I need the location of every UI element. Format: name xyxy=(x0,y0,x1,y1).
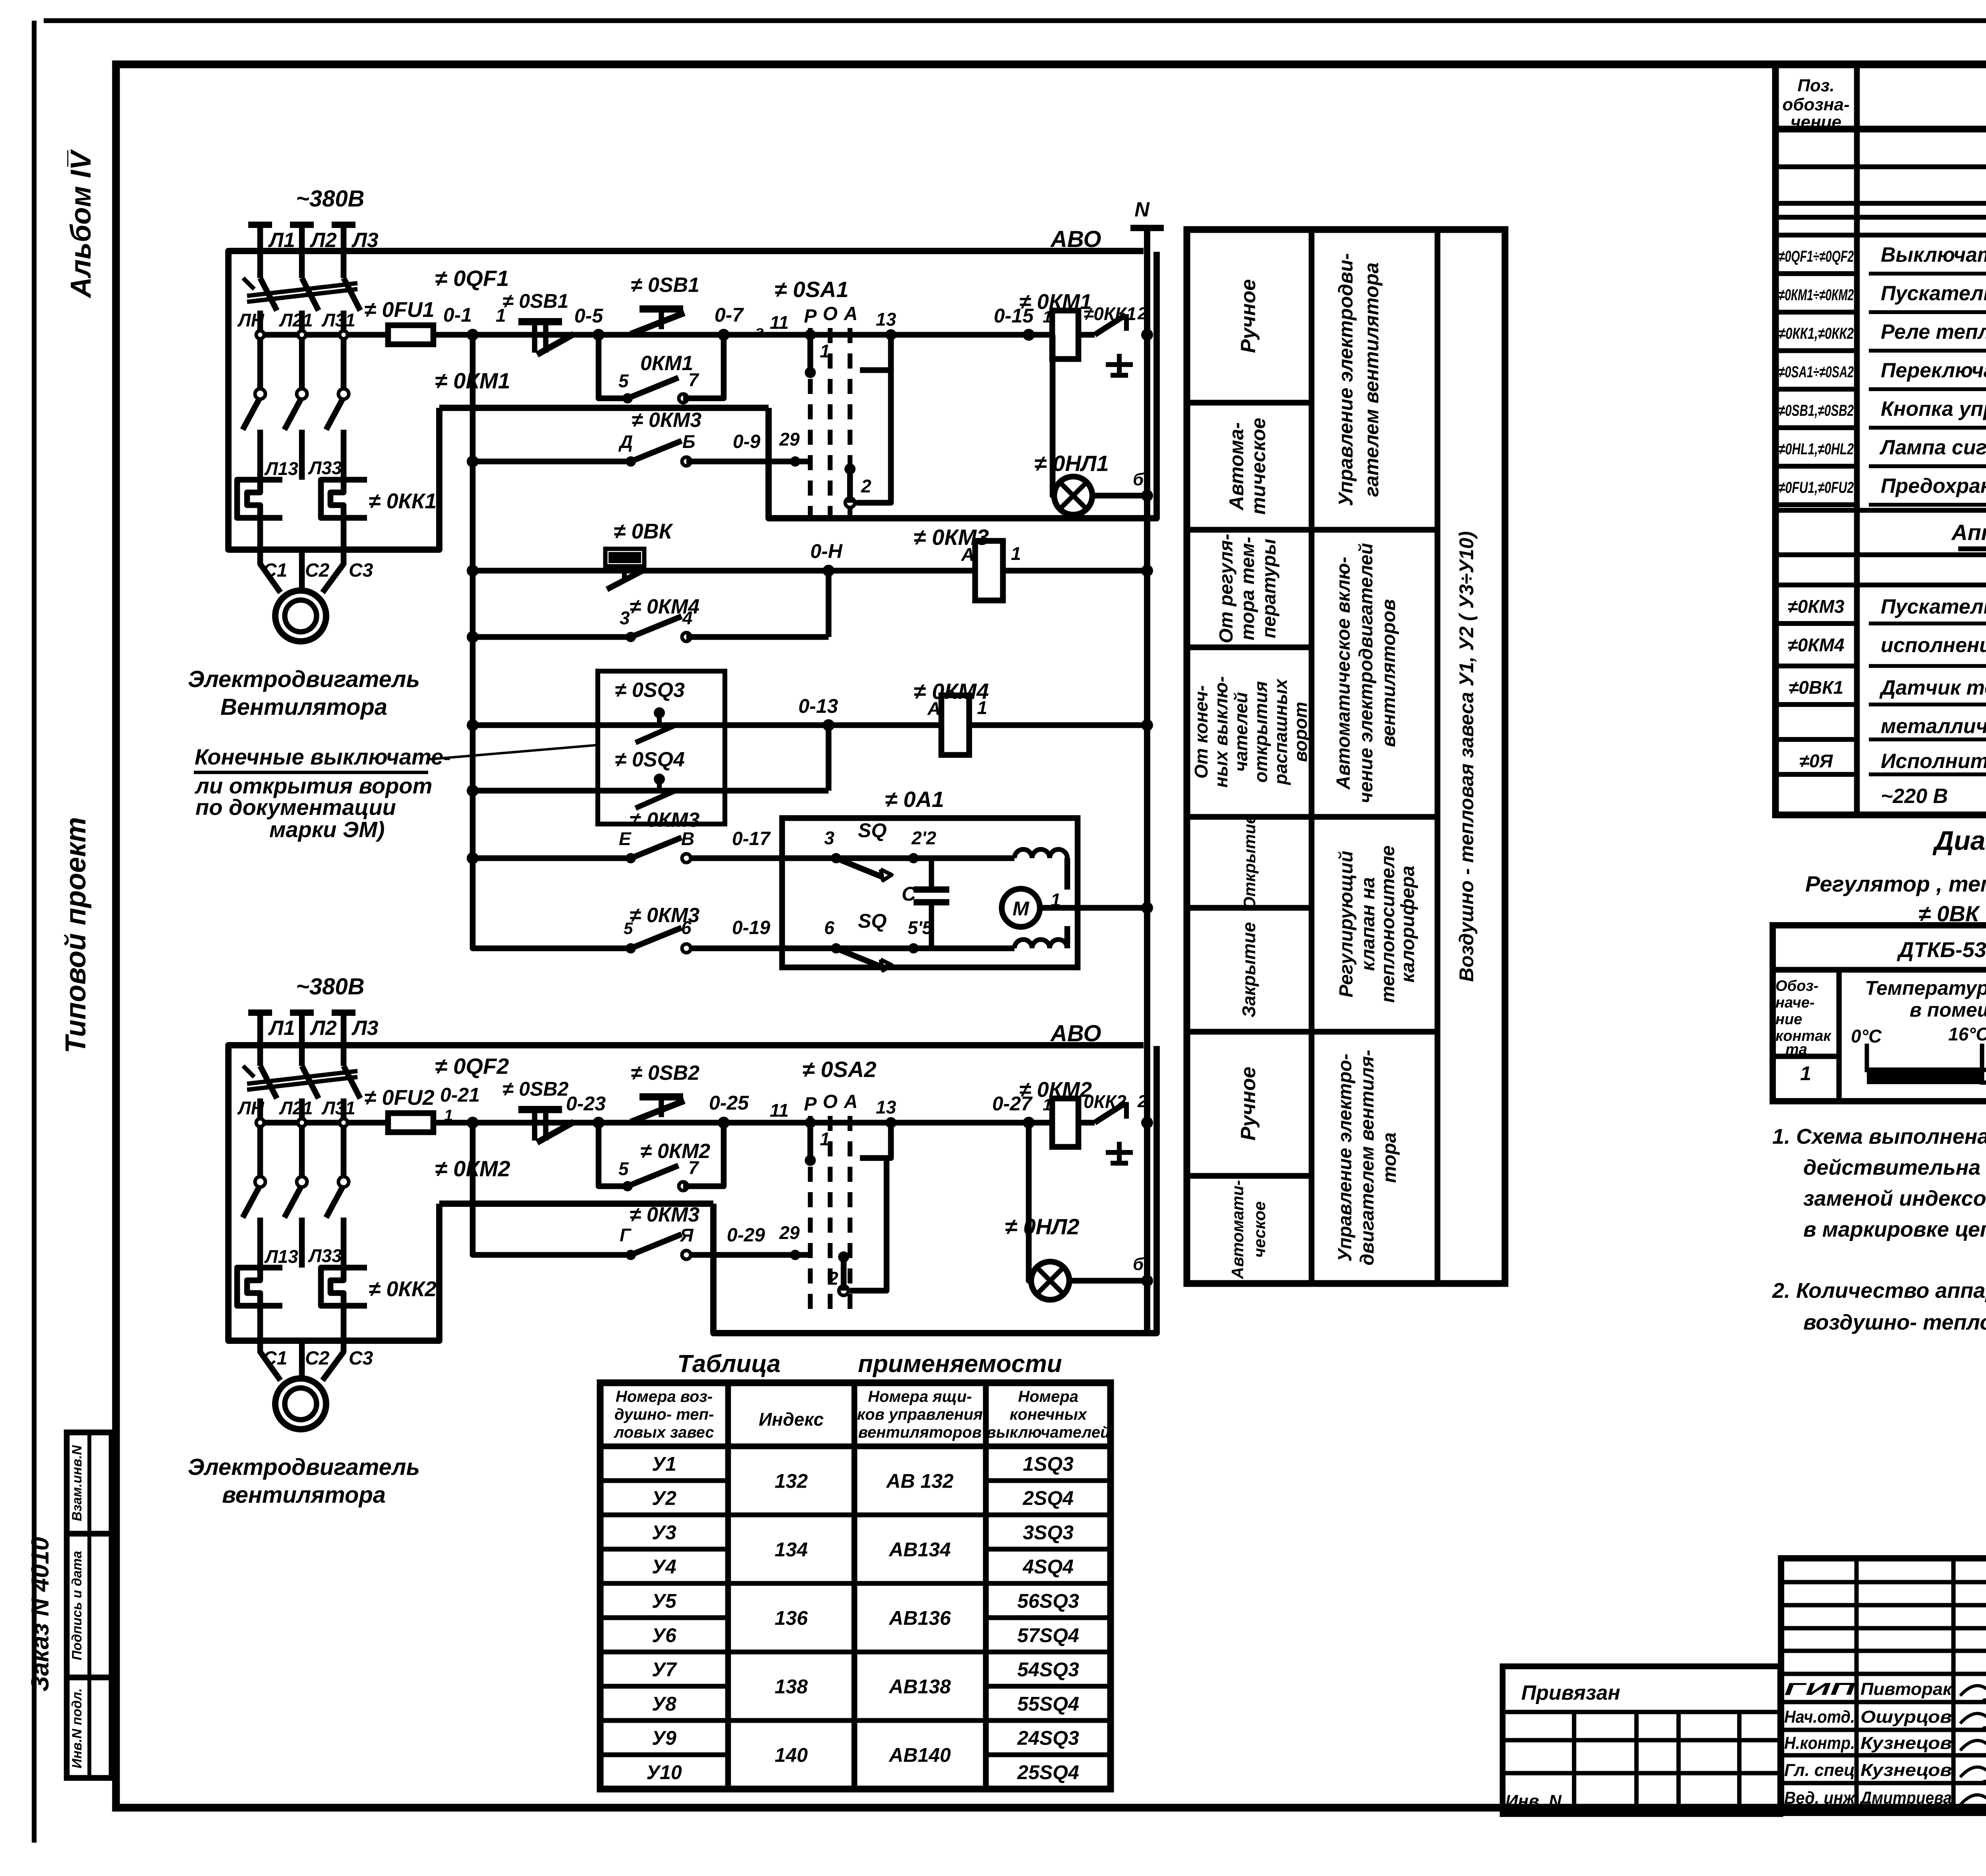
svg-text:теплоносителе: теплоносителе xyxy=(1377,845,1399,1003)
svg-text:ЛН: ЛН xyxy=(237,1098,265,1118)
parts row ≠0QF1&#247;≠0QF2 xyxy=(1775,271,1857,276)
svg-text:ГИП: ГИП xyxy=(1784,1679,1856,1699)
svg-text:29: 29 xyxy=(779,429,800,450)
svg-text:29: 29 xyxy=(779,1222,800,1243)
svg-text:А: А xyxy=(844,1091,858,1112)
fuse ≠ 0FU1 xyxy=(388,325,433,344)
svg-text:чение: чение xyxy=(1791,112,1841,132)
svg-text:Таблица: Таблица xyxy=(677,1350,780,1378)
applicability row У7 xyxy=(600,1684,728,1689)
parts row2 ≠0Я xyxy=(1775,772,1857,777)
svg-text:С1: С1 xyxy=(263,560,287,581)
control tap wire ЛН Л21 Л31 xyxy=(256,332,388,338)
svg-text:С3: С3 xyxy=(349,1348,373,1369)
stop button ≠ 0SB1 xyxy=(518,318,562,325)
svg-text:11: 11 xyxy=(770,312,789,333)
rung 6 wire 0-17 xyxy=(473,855,631,861)
enclosure АВО unit2 xyxy=(228,1045,1144,1341)
parts row ≠0SA1&#247;≠0SA2 xyxy=(1775,387,1857,392)
actuator box ≠ 0А1 xyxy=(782,818,1078,967)
wires to motor terminals xyxy=(257,518,263,550)
svg-text:Пускатель магнитный: Пускатель магнитный xyxy=(1881,282,1986,305)
applicability row У9 xyxy=(600,1752,728,1757)
svg-text:та: та xyxy=(1785,1041,1807,1058)
circuit breaker QF1 xyxy=(260,278,277,311)
svg-text:≠ 0КМ3: ≠ 0КМ3 xyxy=(630,809,699,832)
applicability row У8 xyxy=(600,1718,728,1723)
function table grid xyxy=(1187,230,1505,1283)
svg-text:54SQ3: 54SQ3 xyxy=(1017,1658,1079,1681)
svg-text:≠ 0FU2: ≠ 0FU2 xyxy=(364,1086,435,1110)
thermal relay element КК1 phase1 xyxy=(237,480,282,518)
svg-text:Л31: Л31 xyxy=(321,1098,355,1118)
limit switch SQ bottom xyxy=(831,943,841,953)
svg-text:0-23: 0-23 xyxy=(566,1092,606,1115)
svg-text:SQ: SQ xyxy=(858,910,887,932)
svg-text:по документации: по документации xyxy=(195,795,396,820)
svg-text:Типовой проект: Типовой проект xyxy=(60,817,92,1053)
svg-text:≠ 0КМ2: ≠ 0КМ2 xyxy=(640,1140,710,1163)
main control rung unit1 xyxy=(433,332,1053,338)
parts table empty rows xyxy=(1775,164,1986,169)
fuse ≠ 0FU2 xyxy=(388,1113,433,1132)
svg-text:АВО: АВО xyxy=(1050,1021,1101,1046)
svg-text:≠ 0КМ3: ≠ 0КМ3 xyxy=(630,904,699,927)
svg-text:≠0QF1÷≠0QF2: ≠0QF1÷≠0QF2 xyxy=(1779,248,1854,265)
svg-text:У9: У9 xyxy=(652,1727,676,1749)
node 0-21 xyxy=(467,1117,479,1129)
selector contact position 1 xyxy=(805,329,816,340)
svg-text:2: 2 xyxy=(1137,304,1148,323)
motor M1 circle xyxy=(275,591,326,641)
svg-text:2. Количество аппаратуры: 2. Количество аппаратуры в перечне дано … xyxy=(1772,1279,1986,1303)
svg-text:вентиляторов: вентиляторов xyxy=(1378,599,1399,747)
svg-text:136: 136 xyxy=(775,1607,808,1629)
svg-text:чение электродвигателей: чение электродвигателей xyxy=(1356,543,1377,803)
aux contact 0КМ3 Г-Я unit2 xyxy=(626,1250,636,1260)
parts row ≠0FU1,≠0FU2 xyxy=(1775,502,1857,507)
svg-text:0-13: 0-13 xyxy=(798,695,838,717)
parts row2 металлически xyxy=(1775,737,1857,742)
rung 5 wire 0-13 xyxy=(473,722,1147,728)
svg-text:ДТКБ-53: ДТКБ-53 xyxy=(1897,938,1986,962)
three-phase supply ~380V terminals (unit 2) xyxy=(248,1009,272,1016)
selector switch ≠ 0SA2 dashed poles xyxy=(808,1116,813,1318)
selector contact position 2 xyxy=(844,463,856,475)
svg-text:Номера ящи-: Номера ящи- xyxy=(868,1388,972,1405)
svg-text:действительна для воздушн: действительна для воздушно- тепловых зав… xyxy=(1803,1156,1986,1179)
svg-text:б: б xyxy=(1133,1255,1144,1274)
svg-text:13: 13 xyxy=(876,309,896,330)
node 0-27 xyxy=(1023,1117,1035,1129)
node 0-25 xyxy=(718,1117,730,1129)
svg-text:Датчик температуры камерный: Датчик температуры камерный би- xyxy=(1879,676,1986,699)
svg-text:0-1: 0-1 xyxy=(443,304,472,326)
svg-text:N: N xyxy=(1134,198,1150,221)
svg-text:обозна-: обозна- xyxy=(1782,95,1849,114)
svg-text:≠0SA1÷≠0SA2: ≠0SA1÷≠0SA2 xyxy=(1779,363,1854,381)
svg-text:Привязан: Привязан xyxy=(1521,1681,1620,1704)
svg-text:1: 1 xyxy=(1800,1062,1811,1085)
node 13 and step xyxy=(885,329,896,340)
neutral terminal N unit1 xyxy=(1130,225,1164,231)
signal lamp branch xyxy=(1053,335,1054,496)
svg-text:в маркировке цепей соглас: в маркировке цепей согласно таблице прим… xyxy=(1803,1218,1986,1241)
svg-text:чателей: чателей xyxy=(1231,692,1251,772)
svg-text:≠0КК1: ≠0КК1 xyxy=(1084,303,1136,324)
svg-text:≠ 0НЛ2: ≠ 0НЛ2 xyxy=(1005,1214,1080,1239)
svg-text:Л2: Л2 xyxy=(309,1017,337,1040)
svg-text:≠ 0SB1: ≠ 0SB1 xyxy=(631,274,699,297)
margin stamp table xyxy=(67,1432,112,1778)
stop button ≠ 0SB2 xyxy=(518,1106,562,1113)
svg-text:заменой индексов в обозн: заменой индексов в обозначении аппаратов… xyxy=(1803,1187,1986,1210)
svg-text:≠ 0ВК: ≠ 0ВК xyxy=(614,519,674,543)
svg-text:От регуля-: От регуля- xyxy=(1216,534,1237,643)
contactor main contacts КМ1 xyxy=(255,389,265,399)
svg-text:Л3: Л3 xyxy=(351,1017,379,1040)
svg-text:ворот: ворот xyxy=(1290,702,1311,762)
svg-text:Диаграммы работы контакт: Диаграммы работы контактов xyxy=(1932,826,1986,856)
applicability row У6 xyxy=(600,1650,728,1654)
svg-text:≠ 0НЛ1: ≠ 0НЛ1 xyxy=(1034,451,1109,476)
node N rung1 xyxy=(1141,329,1153,341)
svg-text:АВ138: АВ138 xyxy=(888,1675,951,1698)
actuator output node 1 wire to N xyxy=(1040,905,1147,911)
svg-text:1: 1 xyxy=(820,341,830,361)
svg-text:Дмитриева: Дмитриева xyxy=(1859,1788,1952,1808)
svg-text:Л33: Л33 xyxy=(308,457,342,478)
svg-text:Конечные выключате-: Конечные выключате- xyxy=(195,744,451,769)
svg-text:0-7: 0-7 xyxy=(715,304,744,326)
limit switch SQ top xyxy=(831,853,841,863)
svg-text:Электродвигатель: Электродвигатель xyxy=(188,1454,420,1480)
svg-text:А: А xyxy=(927,698,941,719)
svg-text:применяемости: применяемости xyxy=(858,1350,1062,1378)
svg-text:Номера воз-: Номера воз- xyxy=(616,1388,713,1405)
thermal relay element КК1 phase3 xyxy=(321,480,367,518)
svg-text:АВ134: АВ134 xyxy=(888,1538,951,1561)
svg-text:~380В: ~380В xyxy=(296,186,365,212)
left control bus unit2 xyxy=(473,1123,631,1255)
node 0-Н xyxy=(823,565,835,577)
svg-text:≠ 0SA1: ≠ 0SA1 xyxy=(775,277,848,302)
svg-text:У7: У7 xyxy=(652,1658,677,1681)
svg-text:воздушно- тепловой завесы.: воздушно- тепловой завесы. xyxy=(1803,1310,1986,1334)
svg-text:Р: Р xyxy=(804,306,817,327)
svg-text:душно- теп-: душно- теп- xyxy=(614,1406,714,1423)
svg-text:≠0FU1,≠0FU2: ≠0FU1,≠0FU2 xyxy=(1779,479,1854,496)
applicability table grid xyxy=(600,1383,1111,1789)
svg-text:56SQ3: 56SQ3 xyxy=(1017,1590,1079,1612)
svg-text:≠0HL1,≠0HL2: ≠0HL1,≠0HL2 xyxy=(1779,440,1854,458)
svg-text:тора тем-: тора тем- xyxy=(1237,537,1258,641)
svg-text:Поз.: Поз. xyxy=(1797,76,1834,95)
svg-text:ние: ние xyxy=(1775,1011,1802,1028)
applicability row У3 xyxy=(600,1547,728,1552)
svg-text:Регулирующий: Регулирующий xyxy=(1336,851,1357,997)
svg-text:≠ 0FU1: ≠ 0FU1 xyxy=(364,298,435,322)
svg-text:≠0SB1,≠0SB2: ≠0SB1,≠0SB2 xyxy=(1779,402,1854,419)
svg-text:0-25: 0-25 xyxy=(709,1092,749,1114)
diagram table ДТКБ-53 xyxy=(1773,925,1986,1101)
svg-text:≠ 0КМ3: ≠ 0КМ3 xyxy=(632,409,701,432)
binding table Привязан xyxy=(1503,1666,1780,1814)
rung 2 wire 0-9 xyxy=(473,459,631,465)
svg-text:Автома-: Автома- xyxy=(1225,422,1248,511)
svg-text:Воздушно - тепловая завеса: Воздушно - тепловая завеса У1, У2 ( У3÷У… xyxy=(1455,531,1478,982)
parts row2 ≠0КМ3 xyxy=(1775,621,1857,626)
node 0-5 xyxy=(593,329,605,341)
svg-text:Л21: Л21 xyxy=(279,310,313,330)
svg-text:11: 11 xyxy=(770,1100,789,1121)
svg-text:гателем вентилятора: гателем вентилятора xyxy=(1360,262,1383,497)
svg-text:О: О xyxy=(823,1091,837,1112)
svg-text:Лампа сигнальная: Лампа сигнальная xyxy=(1879,436,1986,459)
svg-text:≠ 0SB1: ≠ 0SB1 xyxy=(502,290,568,312)
annotation leader line xyxy=(429,745,598,759)
svg-text:У2: У2 xyxy=(652,1487,676,1509)
thermal relay element КК2 phase1 xyxy=(237,1268,282,1306)
svg-text:Вентилятора: Вентилятора xyxy=(220,694,387,720)
aux contact 0КМ3 Д-Б rung2 xyxy=(626,456,636,467)
svg-text:≠0КК1,≠0КК2: ≠0КК1,≠0КК2 xyxy=(1779,325,1854,342)
svg-text:С2: С2 xyxy=(305,560,330,581)
selector contact position 1 unit2 xyxy=(805,1117,816,1128)
thermostat ≠ 0ВК xyxy=(609,552,641,563)
svg-text:≠ 0КМ2: ≠ 0КМ2 xyxy=(1019,1078,1092,1102)
svg-text:≠ 0QF2: ≠ 0QF2 xyxy=(435,1054,509,1079)
diagram bar closed 0-16 xyxy=(1867,1067,1982,1084)
limit switch box OSQ3 OSQ4 xyxy=(598,671,725,824)
contactor main contacts КМ2 xyxy=(255,1177,265,1187)
svg-text:1: 1 xyxy=(820,1129,830,1149)
svg-text:открытия: открытия xyxy=(1250,681,1271,783)
svg-text:Гл. спец: Гл. спец xyxy=(1784,1760,1855,1780)
node 13 unit2 and step xyxy=(885,1117,896,1128)
svg-text:0°С: 0°С xyxy=(1851,1026,1882,1046)
svg-text:выключателей: выключателей xyxy=(987,1424,1110,1441)
svg-text:У8: У8 xyxy=(652,1693,676,1715)
svg-text:Пускатель магнитный ПМЕ-051,: Пускатель магнитный ПМЕ-051, Uкат.~220В xyxy=(1881,595,1986,618)
actuator rung bottom inside xyxy=(782,946,1014,952)
svg-text:2SQ4: 2SQ4 xyxy=(1022,1487,1074,1509)
svg-text:Г: Г xyxy=(620,1225,632,1245)
svg-text:б: б xyxy=(1133,470,1144,489)
svg-text:наче-: наче- xyxy=(1775,994,1815,1011)
svg-text:Р: Р xyxy=(804,1094,817,1115)
self-hold branch wire xyxy=(599,335,628,398)
svg-text:≠ 0КМ3: ≠ 0КМ3 xyxy=(630,1203,699,1226)
svg-text:≠ 0КК1: ≠ 0КК1 xyxy=(369,489,437,513)
svg-text:Я: Я xyxy=(680,1225,694,1245)
svg-text:0-19: 0-19 xyxy=(732,917,770,938)
svg-text:Кузнецов: Кузнецов xyxy=(1860,1733,1952,1753)
svg-text:Управление электродви-: Управление электродви- xyxy=(1335,253,1357,506)
node 0-7 xyxy=(718,329,730,341)
svg-text:0-21: 0-21 xyxy=(440,1084,480,1106)
svg-text:г: г xyxy=(755,323,764,340)
svg-text:1. Схема выполнена для: 1. Схема выполнена для воздушно- теплово… xyxy=(1772,1125,1986,1148)
svg-text:клапан на: клапан на xyxy=(1358,877,1379,971)
contactor coil ≠ 0КМ4 rung5 xyxy=(941,695,969,755)
svg-text:Управление электро-: Управление электро- xyxy=(1335,1054,1356,1262)
start button ≠ 0SB2 xyxy=(639,1093,683,1100)
svg-text:≠ 0SB2: ≠ 0SB2 xyxy=(502,1078,569,1100)
node 0-1 xyxy=(467,329,479,341)
main control rung unit2 xyxy=(433,1120,1053,1126)
svg-text:С: С xyxy=(902,883,916,905)
svg-text:Л13: Л13 xyxy=(264,458,298,479)
svg-text:134: 134 xyxy=(775,1538,808,1561)
svg-text:24SQ3: 24SQ3 xyxy=(1017,1727,1079,1749)
svg-text:Выключатель автоматический: Выключатель автоматический xyxy=(1881,243,1986,266)
svg-text:≠0Я: ≠0Я xyxy=(1799,751,1833,771)
svg-text:Автомати-: Автомати- xyxy=(1228,1180,1247,1279)
svg-text:АВ136: АВ136 xyxy=(888,1607,951,1629)
svg-text:Электродвигатель: Электродвигатель xyxy=(188,666,420,692)
svg-text:≠ 0SQ3: ≠ 0SQ3 xyxy=(615,679,685,702)
svg-text:≠ 0SQ4: ≠ 0SQ4 xyxy=(615,748,685,771)
svg-text:Ошурцов: Ошурцов xyxy=(1860,1707,1952,1727)
svg-text:4SQ4: 4SQ4 xyxy=(1022,1556,1074,1578)
actuator motor М xyxy=(1002,889,1040,927)
svg-text:пературы: пературы xyxy=(1259,539,1280,639)
node 0-15 xyxy=(1023,329,1035,341)
svg-text:1: 1 xyxy=(1011,543,1021,564)
signal lamp ≠ 0HL2 xyxy=(1031,1262,1069,1300)
svg-text:У1: У1 xyxy=(652,1453,676,1475)
diagram ticks left xyxy=(1865,1044,1869,1072)
svg-text:АВ140: АВ140 xyxy=(888,1744,951,1766)
svg-text:≠ 0КМ1: ≠ 0КМ1 xyxy=(1019,290,1092,314)
svg-text:Л31: Л31 xyxy=(321,310,355,330)
svg-text:≠0ВК1: ≠0ВК1 xyxy=(1789,677,1843,698)
svg-text:Ручное: Ручное xyxy=(1237,1067,1260,1141)
actuator rung top inside xyxy=(782,855,1014,861)
thermal relay element КК2 phase3 xyxy=(321,1268,367,1306)
parts table outer xyxy=(1775,65,1986,815)
svg-text:2: 2 xyxy=(861,476,871,496)
svg-text:исполнение IР54: исполнение IР54 xyxy=(1881,634,1986,657)
svg-text:двигателем вентиля-: двигателем вентиля- xyxy=(1357,1050,1378,1265)
svg-text:вентилятора: вентилятора xyxy=(222,1482,386,1508)
applicability row У4 xyxy=(600,1581,728,1586)
contactor coil ≠ 0КМ3 rung3 xyxy=(975,541,1003,600)
thermal contact ≠ 0КК1 xyxy=(1095,315,1126,335)
control tap wire ЛН Л21 Л31 unit2 xyxy=(256,1120,388,1126)
svg-text:0КК2: 0КК2 xyxy=(1084,1091,1126,1112)
applicability row У5 xyxy=(600,1615,728,1620)
rung 4 aux contact 0КМ4 3-4 xyxy=(473,634,631,640)
svg-text:Вед. инж: Вед. инж xyxy=(1784,1788,1856,1808)
svg-text:ческое: ческое xyxy=(1250,1201,1269,1258)
svg-text:132: 132 xyxy=(775,1470,808,1492)
title block signature grid xyxy=(1781,1558,1986,1813)
svg-text:5'5: 5'5 xyxy=(908,917,933,938)
svg-text:Температура Воздуха: Температура Воздуха xyxy=(1865,977,1986,999)
svg-text:Инв. N: Инв. N xyxy=(1505,1791,1562,1811)
svg-text:конечных: конечных xyxy=(1010,1406,1088,1423)
applicability row У2 xyxy=(600,1513,728,1517)
svg-text:3SQ3: 3SQ3 xyxy=(1023,1521,1074,1544)
signature squiggles xyxy=(1960,1686,1986,1701)
svg-text:ловых завес: ловых завес xyxy=(613,1424,714,1441)
svg-text:тическое: тическое xyxy=(1247,418,1269,515)
svg-text:SQ: SQ xyxy=(858,819,887,841)
svg-text:138: 138 xyxy=(775,1675,808,1698)
svg-text:1SQ3: 1SQ3 xyxy=(1023,1453,1074,1475)
svg-text:С3: С3 xyxy=(349,560,373,581)
selector switch ≠ 0SA1 dashed poles xyxy=(808,328,813,528)
svg-text:Предохранитель: Предохранитель xyxy=(1881,475,1986,498)
svg-text:0-29: 0-29 xyxy=(727,1225,765,1246)
svg-text:Номера: Номера xyxy=(1018,1388,1078,1405)
svg-text:Д: Д xyxy=(618,431,633,452)
parts row ≠0КК1,≠0КК2 xyxy=(1775,348,1857,353)
svg-text:≠0КМ4: ≠0КМ4 xyxy=(1787,635,1844,655)
svg-text:Обоз-: Обоз- xyxy=(1775,978,1818,994)
svg-text:≠ 0КК2: ≠ 0КК2 xyxy=(369,1277,437,1301)
svg-text:Заказ N 4010: Заказ N 4010 xyxy=(27,1537,54,1692)
contactor coil ≠ 0КМ2 xyxy=(1052,1098,1078,1147)
enclosure АВО unit1 xyxy=(228,251,1144,550)
svg-text:ных выклю-: ных выклю- xyxy=(1211,676,1231,788)
svg-text:марки ЭМ): марки ЭМ) xyxy=(269,817,384,842)
svg-text:≠ 0КМ3: ≠ 0КМ3 xyxy=(914,525,989,550)
svg-text:Переключатель универсальный: Переключатель универсальный xyxy=(1881,359,1986,382)
svg-text:≠ 0SB2: ≠ 0SB2 xyxy=(631,1062,699,1085)
svg-text:распашных: распашных xyxy=(1270,678,1291,786)
svg-text:57SQ4: 57SQ4 xyxy=(1017,1624,1079,1646)
svg-text:Л33: Л33 xyxy=(308,1245,342,1266)
svg-text:М: М xyxy=(1012,897,1030,920)
svg-text:Закрытие: Закрытие xyxy=(1238,922,1259,1017)
applicability row У1 xyxy=(600,1478,728,1483)
parts row ≠0HL1,≠0HL2 xyxy=(1775,464,1857,469)
svg-text:≠ 0SA2: ≠ 0SA2 xyxy=(802,1057,876,1082)
svg-text:С1: С1 xyxy=(263,1348,287,1369)
svg-text:2: 2 xyxy=(1137,1092,1148,1111)
svg-text:ков управления: ков управления xyxy=(857,1406,983,1423)
svg-text:6: 6 xyxy=(824,917,835,938)
rung 3 thermostat wire 0-Н xyxy=(473,568,1147,574)
wires to motor terminals xyxy=(257,1306,263,1338)
svg-text:вентиляторов: вентиляторов xyxy=(858,1424,982,1441)
capacitor C xyxy=(929,858,934,890)
svg-text:Индекс: Индекс xyxy=(759,1409,824,1430)
parts row ≠0КМ1&#247;≠0КМ2 xyxy=(1775,310,1857,315)
svg-text:≠ 0А1: ≠ 0А1 xyxy=(885,787,944,812)
svg-text:калорифера: калорифера xyxy=(1397,866,1418,983)
diagram bar open 16-30 xyxy=(1982,1070,1986,1083)
svg-text:металлический ДТКБ-53, 0÷30°: металлический ДТКБ-53, 0÷30°С, ~220В xyxy=(1881,715,1986,738)
svg-text:Л1: Л1 xyxy=(268,1017,295,1040)
svg-text:5: 5 xyxy=(618,1158,629,1179)
svg-text:Исполнительный механизм МЭ: Исполнительный механизм МЭО-0,63; xyxy=(1881,750,1986,773)
svg-text:Л21: Л21 xyxy=(279,1098,313,1118)
svg-text:Кузнецов: Кузнецов xyxy=(1860,1760,1952,1780)
svg-text:0-Н: 0-Н xyxy=(810,540,842,562)
svg-text:0КМ1: 0КМ1 xyxy=(640,352,693,375)
left control bus unit1 xyxy=(470,335,476,946)
selector contact position 2 unit2 xyxy=(838,1251,849,1262)
svg-text:Автоматическое вклю-: Автоматическое вклю- xyxy=(1333,557,1354,790)
limit switch 0SQ4 output wire xyxy=(473,788,829,794)
svg-text:16°С: 16°С xyxy=(1948,1024,1986,1044)
svg-text:Пивторак: Пивторак xyxy=(1860,1679,1953,1699)
svg-text:Подпись и дата: Подпись и дата xyxy=(70,1551,85,1660)
